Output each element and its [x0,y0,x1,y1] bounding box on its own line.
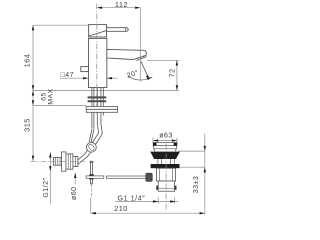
cap edge blocks [153,143,157,146]
ball joint [87,142,97,152]
arrow d63 right [172,139,177,141]
aerator band [136,57,146,61]
svg-text:72: 72 [167,68,176,77]
wire ext spout height [147,59,179,61]
under-deck assembly [78,88,103,164]
node faucet centerline [96,4,98,115]
arrow 33 top [204,146,206,151]
svg-text:112: 112 [115,0,128,9]
node drain centerline [165,144,167,211]
arrow 33 bottom [204,167,206,172]
wire deck line [33,89,179,91]
arrow arc right [147,77,152,80]
wire G114 tick right [174,198,176,204]
arrow 164 bottom [32,85,34,90]
cap sides [153,146,177,152]
hex nut [66,154,73,169]
arrow 112 left [97,7,102,9]
coupling nub right [175,186,177,190]
lever end tick [125,28,127,32]
mounting plate [86,106,117,112]
wall fitting G1/2 [53,152,78,171]
coupling nub left [156,186,158,190]
drain assembly [153,143,177,152]
wire dim 210 [91,212,205,214]
svg-text:33±3: 33±3 [193,176,200,194]
shank rod pair left [92,88,94,129]
arrow 72 top [176,60,178,65]
wire G114 underline [116,201,179,203]
handle parting diagonal [89,31,107,36]
wire ext 210 left [90,198,92,213]
wire dim line right 33+-3 / 210 [204,134,206,215]
wire 65max lower line [33,105,86,107]
arrow 65max up [32,90,34,95]
wire ref drain bottom [179,166,205,168]
wire d47 leader left [60,77,88,79]
wire angle arc [128,76,153,80]
svg-text:ø60: ø60 [71,186,78,200]
arrow 210 left [91,212,96,214]
nut bar lower [88,100,107,102]
svg-text:65: 65 [40,92,47,101]
nut bar upper [88,96,107,98]
nipple [53,157,61,165]
svg-text:315: 315 [23,118,32,132]
arrow 65max down [32,100,34,105]
arrow G12 up [49,152,51,157]
wire dim 112 [97,7,141,9]
side knob [81,67,89,72]
arrow G114 left [153,200,158,202]
arrow d60 up [74,173,76,178]
wire left dimension line 164-315 [32,25,34,161]
wire water stream [141,61,149,78]
svg-text:□47: □47 [61,72,75,79]
pivot nut [146,173,152,181]
svg-text:ø63: ø63 [159,133,173,140]
wire G12 leader [49,152,51,203]
seal cone black [150,152,180,159]
horizontal rod seg2 [106,176,146,178]
arrow 112 right [135,7,140,9]
wire dashed rod extension [91,184,93,198]
wire top extension line [33,24,89,26]
arrow d47 right-pointing [83,77,88,79]
wire extension spout tip overlay [139,8,141,82]
arrow 72 bottom [176,85,178,90]
arrow 164 top [32,25,34,30]
horizontal rod seg1 [86,176,104,178]
arrow d63 left [153,139,158,141]
handle cap [89,25,107,37]
svg-text:MAX: MAX [48,88,55,104]
shank right line [102,88,104,116]
wire ref drain top [179,150,205,152]
tailpipe [158,181,174,191]
arrow stream tip [146,75,149,80]
rod clamp [89,174,94,179]
drain body [157,168,176,181]
aerator hatch [137,56,144,60]
lever rod [107,28,129,32]
node fitting centerline [31,160,86,162]
svg-text:210: 210 [114,204,128,213]
adapter [73,156,78,166]
arrows (filled) [32,7,206,215]
arrow G12 down [49,166,51,171]
hose line left [78,124,99,160]
svg-text:G1/2″: G1/2″ [43,178,50,198]
hose line right [78,124,102,165]
flange disc [62,152,66,171]
seal washer black [151,164,180,168]
wire ext 63 right [176,138,178,144]
wire dim 72 [176,60,178,90]
arrow d47 left-pointing [107,77,112,79]
shank hose pair [97,88,101,124]
wire ext 63 left [152,138,154,144]
rod diagonal into ball [89,129,94,143]
wire G114 tick left [157,198,159,204]
faucet outline [81,25,147,88]
plug cap top [153,142,177,144]
arrow 315 bottom [32,156,34,161]
svg-text:G1 1/4″: G1 1/4″ [118,193,146,202]
wire d47 leader right [107,77,117,79]
arrow G114 right [170,200,175,202]
wire d60 leader [74,173,76,185]
body [88,38,106,87]
pull rod [90,161,93,184]
svg-text:164: 164 [23,54,32,68]
spout [107,49,146,59]
arrow 210 right [200,212,205,214]
neck [158,159,174,164]
wire dim 63 [153,140,177,142]
